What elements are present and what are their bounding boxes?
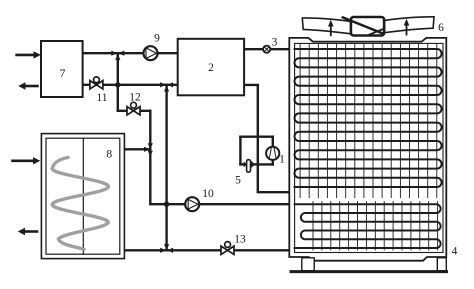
wire box8 top outlet xyxy=(124,148,150,150)
wire line A box7 to box2 xyxy=(83,52,178,54)
svg-text:9: 9 xyxy=(154,33,160,45)
svg-text:4: 4 xyxy=(452,246,458,258)
box 8 inner xyxy=(46,138,120,254)
svg-text:11: 11 xyxy=(96,92,107,104)
wire loop mid horizontal xyxy=(240,163,272,165)
fan air arrow left xyxy=(328,20,334,36)
wire loop right branch xyxy=(272,137,274,165)
wire box2 right down to box4 (compressor branch) xyxy=(244,85,290,192)
fan 6 right blade xyxy=(384,17,434,33)
condenser box 4 outer shell xyxy=(289,38,446,261)
fan 6 hub xyxy=(351,17,384,36)
wire line B box7 to box2 xyxy=(83,84,178,86)
valve 11 xyxy=(90,77,103,89)
wire vertical V2 from J2 down to bottom line xyxy=(165,85,167,251)
svg-text:12: 12 xyxy=(129,92,141,104)
box 8 coil (gray serpentine) xyxy=(52,158,108,250)
valve 12 xyxy=(127,102,140,115)
box 8 divider xyxy=(82,138,84,254)
wire vertical V1b down to pump10 line xyxy=(150,111,290,204)
svg-text:10: 10 xyxy=(202,188,214,200)
svg-text:7: 7 xyxy=(60,68,66,80)
condenser upper coil serpentine xyxy=(295,49,442,187)
arrow into box8 xyxy=(13,157,41,164)
arrow into box7 xyxy=(17,51,41,58)
svg-text:6: 6 xyxy=(438,22,444,34)
fan 6 hub diagonal xyxy=(343,17,384,33)
wire bottom line box8 to box4 xyxy=(124,249,290,251)
wire vertical from J1 down to valve12 line xyxy=(117,53,119,111)
arrow out of box7 xyxy=(18,82,37,89)
junction J3 arrows xyxy=(144,143,153,156)
fan 6 hub short diagonal xyxy=(369,29,384,35)
condenser upper fin grid xyxy=(300,43,437,197)
svg-text:8: 8 xyxy=(106,149,112,161)
wire box2 right to node3 to box4 xyxy=(244,48,290,50)
junction J1 arrows xyxy=(111,51,124,60)
condenser box 4 inner liner xyxy=(295,43,443,252)
condenser left foot xyxy=(302,258,314,271)
svg-text:1: 1 xyxy=(279,154,285,166)
valve 13 xyxy=(221,242,234,255)
compressor 1 (circle) xyxy=(266,147,279,160)
box 8 outer xyxy=(41,134,124,259)
arrow out of box8 xyxy=(18,228,37,235)
base plate xyxy=(291,270,447,273)
svg-text:13: 13 xyxy=(234,234,246,246)
box 2 xyxy=(178,39,244,96)
component 5 (expansion device) xyxy=(244,160,256,172)
condenser right foot xyxy=(437,258,446,271)
svg-text:3: 3 xyxy=(272,37,278,49)
wire loop left branch xyxy=(239,137,241,165)
condenser lower coil serpentine xyxy=(295,204,441,248)
svg-text:2: 2 xyxy=(208,62,214,74)
pump 10 xyxy=(185,197,199,211)
node 3 (circle with X) xyxy=(263,46,270,53)
condenser lower fin grid xyxy=(313,202,438,251)
junction J2 arrows xyxy=(160,82,173,91)
box 7 xyxy=(41,41,83,97)
junction dot on pump10 line xyxy=(164,202,169,207)
fan air arrow right xyxy=(404,19,410,35)
pump 9 xyxy=(144,46,158,60)
junction J4 arrows xyxy=(160,244,173,253)
fan 6 left blade xyxy=(302,18,352,34)
wire loop top xyxy=(240,135,272,137)
wire valve12 horizontal xyxy=(118,110,151,112)
svg-text:5: 5 xyxy=(235,175,241,187)
junction dot on line B xyxy=(115,82,120,87)
